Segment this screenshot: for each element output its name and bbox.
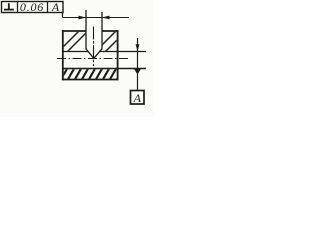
block top edge left: [62, 30, 87, 32]
horizontal dash-dot centerline: [57, 58, 128, 60]
vertical centerline of slot: [93, 27, 95, 67]
right extension line / slot wall: [101, 12, 103, 49]
upper face line left of slot: [62, 51, 88, 53]
dimension arrow pointing right at left slot wall: [79, 16, 87, 20]
datum box A: [131, 91, 145, 105]
block bottom edge: [62, 79, 119, 81]
perpendicularity symbol: [4, 3, 14, 9]
dimension arrow pointing left at right slot wall: [102, 16, 110, 20]
upper face line right of slot with extension to datum leader: [99, 51, 146, 53]
dimension line: [63, 17, 130, 19]
hatch upper-right region: [95, 30, 127, 52]
hatch upper-left region: [58, 30, 89, 52]
datum leader stem lower: [137, 74, 139, 90]
datum leader stem middle: [137, 52, 139, 69]
arrow pointing down onto upper face extension: [136, 44, 140, 51]
leader from frame down to dimension line: [62, 13, 64, 18]
feature control frame outer box: [2, 2, 64, 13]
block left edge: [62, 30, 64, 80]
left extension line / slot wall: [85, 10, 87, 49]
svg-text:A: A: [133, 91, 142, 105]
V-slot right slope: [94, 49, 102, 59]
datum leader stem upper: [137, 38, 139, 52]
lower plate top edge with extension to datum leader: [62, 68, 146, 70]
datum triangle on lower plate extension: [134, 69, 141, 75]
block right edge: [117, 30, 119, 80]
V-slot left slope: [86, 49, 94, 59]
feature control frame divider 1: [17, 2, 19, 13]
svg-text:0.06: 0.06: [20, 0, 44, 14]
hatch lower plate: [60, 67, 124, 81]
feature control frame divider 2: [47, 2, 49, 13]
svg-text:A: A: [51, 0, 60, 14]
block top edge right: [102, 30, 119, 32]
